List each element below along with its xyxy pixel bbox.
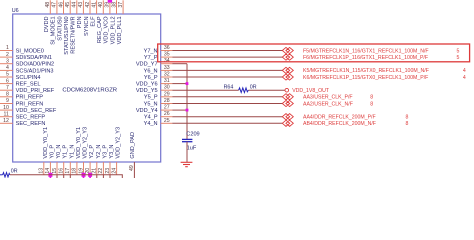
svg-text:U6: U6 bbox=[12, 8, 19, 14]
svg-text:SCS/AD1/PIN3: SCS/AD1/PIN3 bbox=[16, 68, 54, 74]
svg-text:Y4_N: Y4_N bbox=[144, 121, 158, 127]
svg-text:AA3/USER_CLK_P/F: AA3/USER_CLK_P/F bbox=[303, 95, 353, 101]
svg-text:SDI/SDA/PIN1: SDI/SDA/PIN1 bbox=[16, 55, 52, 61]
svg-text:PRI_REFN: PRI_REFN bbox=[16, 101, 44, 107]
svg-text:23: 23 bbox=[105, 168, 111, 174]
svg-text:31: 31 bbox=[164, 78, 170, 84]
off-page connector AA3 bbox=[282, 94, 293, 100]
pin 12 SEC_REFN stub bbox=[0, 122, 13, 124]
svg-text:K6/MGTREFCLK1P_115/GTX0_REFCLK: K6/MGTREFCLK1P_115/GTX0_REFCLK1_100M_P/F bbox=[303, 75, 428, 81]
svg-text:48: 48 bbox=[45, 2, 51, 8]
pin 11 SEC_REFP stub bbox=[0, 116, 13, 118]
svg-text:9: 9 bbox=[6, 98, 9, 104]
svg-text:4: 4 bbox=[463, 68, 466, 74]
svg-text:GND_PAD: GND_PAD bbox=[130, 132, 136, 159]
wire Y0_N continues bbox=[56, 175, 58, 178]
pin 37 VDD_PLL1 stub bbox=[122, 0, 124, 14]
svg-text:19: 19 bbox=[78, 168, 84, 174]
pin 27 VDD_Y4 stub bbox=[161, 109, 173, 111]
svg-text:Y4_P: Y4_P bbox=[144, 115, 158, 121]
power symbol VDD_1V8_OUT bbox=[285, 88, 289, 92]
svg-text:SYNCN: SYNCN bbox=[84, 16, 90, 36]
off-page connector K5 bbox=[282, 67, 293, 73]
svg-text:8: 8 bbox=[406, 121, 409, 127]
wire Y3_P continues bbox=[102, 175, 104, 178]
wire Y3_N continues bbox=[109, 175, 111, 178]
highlight box GTX1 REFCLK nets bbox=[158, 44, 470, 62]
svg-text:Y5_P: Y5_P bbox=[144, 95, 158, 101]
svg-text:5: 5 bbox=[457, 48, 460, 54]
pin 3 SDO/AD0/PIN2 stub bbox=[0, 63, 13, 65]
svg-text:Y5_N: Y5_N bbox=[144, 101, 158, 107]
svg-text:Y6_N: Y6_N bbox=[144, 68, 158, 74]
pin 39 VDD_VCO stub bbox=[109, 0, 111, 14]
svg-text:VDD_Y0_Y1: VDD_Y0_Y1 bbox=[76, 127, 82, 159]
svg-text:46: 46 bbox=[58, 2, 64, 8]
wire net MGTREFCLK1N_115 bbox=[172, 69, 282, 71]
wire Y2_N continues bbox=[96, 175, 98, 178]
svg-text:SCL/PIN4: SCL/PIN4 bbox=[16, 75, 41, 81]
off-page connector F5 bbox=[282, 47, 293, 53]
svg-text:11: 11 bbox=[4, 111, 9, 117]
svg-text:VDD_SEC_REF: VDD_SEC_REF bbox=[16, 108, 57, 114]
IC U6 CDCM6208V1RGZR body bbox=[13, 14, 161, 162]
svg-text:AA4/DDR_REFCLK_200M_P/F: AA4/DDR_REFCLK_200M_P/F bbox=[303, 115, 376, 121]
svg-text:Y1_P: Y1_P bbox=[63, 145, 69, 159]
pin 25 Y4_N stub bbox=[161, 122, 173, 124]
wire net DDR_REFCLK_200M_N bbox=[172, 122, 282, 124]
svg-text:Y1_N: Y1_N bbox=[69, 145, 75, 159]
svg-text:20: 20 bbox=[85, 168, 91, 174]
svg-text:VDD_PLL2: VDD_PLL2 bbox=[110, 16, 116, 44]
svg-text:VDD_Y5: VDD_Y5 bbox=[136, 88, 158, 94]
junction rail VDD_Y4 bbox=[186, 109, 189, 112]
svg-text:3: 3 bbox=[6, 58, 9, 64]
svg-text:Y3_N: Y3_N bbox=[109, 145, 115, 159]
svg-text:32: 32 bbox=[164, 72, 170, 78]
svg-text:Y3_P: Y3_P bbox=[102, 145, 108, 159]
pin 36 Y7_N stub bbox=[161, 50, 173, 52]
svg-text:47: 47 bbox=[52, 2, 58, 8]
svg-text:8: 8 bbox=[406, 115, 409, 121]
svg-text:8: 8 bbox=[370, 95, 373, 101]
svg-text:SEC_REFP: SEC_REFP bbox=[16, 115, 46, 121]
off-page connector AA2 bbox=[282, 100, 293, 106]
svg-text:6: 6 bbox=[6, 78, 9, 84]
svg-text:13: 13 bbox=[39, 168, 45, 174]
wire net MGTREFCLK1N_116 bbox=[172, 50, 282, 52]
pin 42 SYNCN stub bbox=[89, 0, 91, 14]
svg-text:F6/MGTREFCLK1P_116/GTX1_REFCLK: F6/MGTREFCLK1P_116/GTX1_REFCLK1_100M_P/F bbox=[303, 55, 428, 61]
svg-text:25: 25 bbox=[164, 118, 170, 124]
svg-text:28: 28 bbox=[164, 98, 170, 104]
svg-text:VDD_Y6: VDD_Y6 bbox=[136, 82, 158, 88]
off-page connector K6 bbox=[282, 74, 293, 80]
svg-text:24: 24 bbox=[111, 168, 117, 174]
svg-text:PRI_REFP: PRI_REFP bbox=[16, 95, 44, 101]
pin 6 REF_SEL stub bbox=[0, 83, 13, 85]
svg-text:VDD_Y0_Y1: VDD_Y0_Y1 bbox=[43, 127, 49, 159]
wire net DDR_REFCLK_200M_P bbox=[172, 116, 282, 118]
off-page connector AB4 bbox=[282, 120, 293, 126]
svg-text:DVDD: DVDD bbox=[44, 16, 50, 32]
svg-text:Y2_P: Y2_P bbox=[89, 145, 95, 159]
pin 48 DVDD stub bbox=[49, 0, 51, 14]
svg-text:38: 38 bbox=[111, 2, 117, 8]
pin 19 VDD_Y2_Y3 stub bbox=[83, 162, 85, 175]
pin 40 REG_CAP stub bbox=[102, 0, 104, 14]
svg-text:Y0_P: Y0_P bbox=[49, 145, 55, 159]
svg-text:14: 14 bbox=[45, 168, 51, 174]
svg-text:Y6_P: Y6_P bbox=[144, 75, 158, 81]
pin 4 SCS/AD1/PIN3 stub bbox=[0, 69, 13, 71]
svg-text:5: 5 bbox=[6, 72, 9, 78]
svg-text:SDO/AD0/PIN2: SDO/AD0/PIN2 bbox=[16, 62, 55, 68]
wire VDD_Y5 to R64 bbox=[172, 89, 238, 91]
svg-text:36: 36 bbox=[164, 45, 170, 51]
svg-text:0R: 0R bbox=[11, 168, 18, 174]
junction pin 14 bbox=[48, 173, 52, 177]
pin 22 Y3_P stub bbox=[102, 162, 104, 175]
svg-text:35: 35 bbox=[164, 52, 170, 58]
pin 44 RESETN/PWR stub bbox=[76, 0, 78, 14]
junction pin 19 bbox=[82, 173, 86, 177]
pin 2 SDI/SDA/PIN1 stub bbox=[0, 56, 13, 58]
pin 26 Y4_P stub bbox=[161, 116, 173, 118]
wire net MGTREFCLK1P_115 bbox=[172, 76, 282, 78]
pin 24 VDD_Y2_Y3 stub bbox=[116, 162, 118, 175]
wire bottom VDD rail bbox=[10, 175, 122, 178]
svg-text:4: 4 bbox=[6, 65, 9, 71]
svg-text:1: 1 bbox=[6, 45, 9, 51]
svg-text:22: 22 bbox=[98, 168, 104, 174]
pin 28 Y5_N stub bbox=[161, 103, 173, 105]
svg-text:2: 2 bbox=[6, 52, 9, 58]
svg-text:Y0_N: Y0_N bbox=[56, 145, 62, 159]
svg-text:45: 45 bbox=[65, 2, 71, 8]
capacitor C209 body bbox=[182, 138, 192, 140]
svg-text:F5/MGTREFCLK1N_116/GTX1_REFCLK: F5/MGTREFCLK1N_116/GTX1_REFCLK1_100M_N/F bbox=[303, 48, 429, 54]
svg-text:27: 27 bbox=[164, 105, 170, 111]
pin 7 VDD_PRI_REF stub bbox=[0, 89, 13, 91]
wire R64 to VDD_1V8_OUT bbox=[248, 89, 285, 91]
svg-text:CDCM6208V1RGZR: CDCM6208V1RGZR bbox=[62, 88, 117, 94]
pin 20 Y2_P stub bbox=[89, 162, 91, 175]
svg-text:PDN: PDN bbox=[77, 16, 83, 28]
pin 5 SCL/PIN4 stub bbox=[0, 76, 13, 78]
svg-text:5: 5 bbox=[457, 55, 460, 61]
pin 43 PDN stub bbox=[82, 0, 84, 14]
pin 33 Y6_N stub bbox=[161, 69, 173, 71]
wire net USER_CLK_N bbox=[172, 103, 282, 105]
pin 38 VDD_PLL2 stub bbox=[116, 0, 118, 14]
svg-text:SEC_REFN: SEC_REFN bbox=[16, 121, 46, 127]
wire VDD_Y4 to rail bbox=[172, 109, 187, 111]
svg-text:43: 43 bbox=[78, 2, 84, 8]
svg-text:42: 42 bbox=[85, 2, 91, 8]
svg-text:Y7_N: Y7_N bbox=[144, 48, 158, 54]
svg-text:7: 7 bbox=[6, 85, 9, 91]
svg-text:ELF: ELF bbox=[90, 16, 96, 27]
svg-text:VDD_PRI_REF: VDD_PRI_REF bbox=[16, 88, 55, 94]
pin 21 Y2_N stub bbox=[96, 162, 98, 175]
svg-text:Y2_N: Y2_N bbox=[96, 145, 102, 159]
resistor R64 body bbox=[239, 88, 249, 93]
pin 46 STATUS0 stub bbox=[63, 0, 65, 14]
svg-text:33: 33 bbox=[164, 65, 170, 71]
junction rail VDD_Y6 bbox=[186, 82, 189, 85]
svg-text:Y7_P: Y7_P bbox=[144, 55, 158, 61]
svg-text:REF_SEL: REF_SEL bbox=[16, 82, 41, 88]
pin 16 Y1_P stub bbox=[63, 162, 65, 175]
svg-text:R64: R64 bbox=[224, 84, 234, 90]
svg-text:K5/MGTREFCLK1N_115/GTX0_REFCLK: K5/MGTREFCLK1N_115/GTX0_REFCLK1_100M_N/F bbox=[303, 68, 429, 74]
pin 18 VDD_Y0_Y1 stub bbox=[76, 162, 78, 175]
pin 13 VDD_Y0_Y1 stub bbox=[43, 162, 45, 175]
svg-text:AA2/USER_CLK_N/F: AA2/USER_CLK_N/F bbox=[303, 101, 353, 107]
svg-text:VDD_Y4: VDD_Y4 bbox=[136, 108, 158, 114]
pin 32 Y6_P stub bbox=[161, 76, 173, 78]
svg-text:4: 4 bbox=[463, 75, 466, 81]
svg-text:1uF: 1uF bbox=[187, 145, 197, 151]
svg-text:8: 8 bbox=[370, 101, 373, 107]
wire VDD rail vertical bbox=[186, 64, 188, 140]
pin 14 Y0_P stub bbox=[49, 162, 51, 175]
svg-text:30: 30 bbox=[164, 85, 170, 91]
wire VDD_Y7 to rail bbox=[172, 63, 187, 65]
pin 23 Y3_N stub bbox=[109, 162, 111, 175]
svg-text:37: 37 bbox=[118, 2, 124, 8]
pin 1 SI_MODE0 stub bbox=[0, 50, 13, 52]
wire Y1_N continues bbox=[69, 175, 71, 178]
wire net USER_CLK_P bbox=[172, 96, 282, 98]
svg-text:10: 10 bbox=[3, 105, 9, 111]
off-page connector F6 bbox=[282, 54, 293, 60]
svg-text:C209: C209 bbox=[186, 132, 199, 138]
off-page connector AA4 bbox=[282, 114, 293, 120]
svg-text:17: 17 bbox=[65, 168, 71, 174]
svg-text:STATUS1/PIN0: STATUS1/PIN0 bbox=[64, 16, 70, 54]
pin 34 VDD_Y7 stub bbox=[161, 63, 173, 65]
svg-text:29: 29 bbox=[164, 91, 170, 97]
svg-text:VDD_VCO: VDD_VCO bbox=[104, 16, 110, 44]
svg-text:AB4/DDR_REFCLK_200M_N/F: AB4/DDR_REFCLK_200M_N/F bbox=[303, 121, 376, 127]
svg-text:26: 26 bbox=[164, 111, 170, 117]
pin 49 GND_PAD stub bbox=[133, 162, 135, 178]
wire C209 to ground bbox=[186, 142, 188, 162]
svg-text:16: 16 bbox=[59, 168, 65, 174]
pin 29 Y5_P stub bbox=[161, 96, 173, 98]
svg-text:VDD_Y7: VDD_Y7 bbox=[136, 62, 158, 68]
svg-text:STATUS0: STATUS0 bbox=[57, 16, 63, 40]
junction marker VDD_VCO bbox=[108, 0, 112, 3]
svg-text:15: 15 bbox=[52, 168, 58, 174]
pin 10 VDD_SEC_REF stub bbox=[0, 109, 13, 111]
wire VDD_Y6 to rail bbox=[172, 83, 187, 85]
pin 9 PRI_REFN stub bbox=[0, 103, 13, 105]
svg-text:41: 41 bbox=[91, 2, 97, 8]
resistor 0R body bbox=[3, 173, 10, 177]
pin 17 Y1_N stub bbox=[69, 162, 71, 175]
svg-text:SI_MODE1: SI_MODE1 bbox=[51, 16, 57, 44]
pin 8 PRI_REFP stub bbox=[0, 96, 13, 98]
pin 15 Y0_N stub bbox=[56, 162, 58, 175]
svg-text:21: 21 bbox=[92, 168, 98, 174]
svg-text:VDD_1V8_OUT: VDD_1V8_OUT bbox=[292, 88, 330, 94]
pin 30 VDD_Y5 stub bbox=[161, 89, 173, 91]
svg-text:VDD_PLL1: VDD_PLL1 bbox=[117, 16, 123, 44]
wire net MGTREFCLK1P_116 bbox=[172, 56, 282, 58]
svg-text:49: 49 bbox=[129, 165, 135, 171]
svg-text:VDD_Y2_Y3: VDD_Y2_Y3 bbox=[83, 127, 89, 159]
svg-text:0R: 0R bbox=[250, 84, 257, 90]
junction pin 20 bbox=[88, 173, 92, 177]
svg-text:12: 12 bbox=[3, 118, 9, 124]
pin 45 STATUS1/PIN0 stub bbox=[69, 0, 71, 14]
pin 31 VDD_Y6 stub bbox=[161, 83, 173, 85]
svg-text:REG_CAP: REG_CAP bbox=[97, 16, 103, 43]
svg-text:44: 44 bbox=[72, 2, 78, 8]
pin 41 ELF stub bbox=[96, 0, 98, 14]
svg-text:8: 8 bbox=[6, 92, 9, 98]
svg-text:VDD_Y2_Y3: VDD_Y2_Y3 bbox=[116, 127, 122, 159]
svg-text:18: 18 bbox=[72, 168, 78, 174]
svg-text:SI_MODE0: SI_MODE0 bbox=[16, 48, 44, 54]
svg-text:RESETN/PWR: RESETN/PWR bbox=[71, 16, 77, 53]
pin 47 SI_MODE1 stub bbox=[56, 0, 58, 14]
pin 35 Y7_P stub bbox=[161, 56, 173, 58]
ground bbox=[181, 161, 193, 163]
svg-text:40: 40 bbox=[98, 2, 104, 8]
wire Y1_P continues bbox=[63, 175, 65, 178]
resistor 0R left lead wire bbox=[0, 174, 3, 176]
